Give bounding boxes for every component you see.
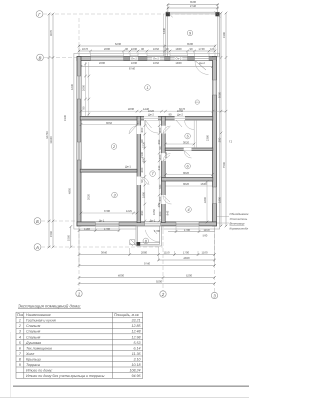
svg-text:Ок-2: Ок-2: [176, 57, 182, 61]
svg-text:1700: 1700: [184, 228, 191, 232]
svg-text:300: 300: [158, 211, 162, 216]
svg-text:7: 7: [152, 172, 155, 176]
svg-text:1890: 1890: [142, 191, 146, 198]
svg-text:1050: 1050: [152, 208, 156, 215]
svg-text:Наименование: Наименование: [26, 313, 51, 317]
svg-text:1560: 1560: [66, 234, 70, 241]
svg-text:2: 2: [18, 324, 21, 328]
svg-text:1700: 1700: [154, 229, 161, 233]
svg-text:Спальня: Спальня: [26, 335, 40, 339]
svg-text:3500: 3500: [187, 42, 194, 46]
svg-text:3070: 3070: [49, 29, 53, 36]
svg-text:2740: 2740: [190, 4, 197, 8]
svg-text:2080: 2080: [141, 251, 148, 255]
svg-text:310: 310: [157, 165, 161, 170]
svg-text:3: 3: [213, 293, 216, 298]
svg-text:5.53: 5.53: [134, 341, 141, 345]
svg-text:3640: 3640: [101, 251, 108, 255]
svg-text:4000: 4000: [118, 274, 125, 278]
svg-text:4: 4: [187, 208, 189, 212]
svg-text:300: 300: [157, 202, 161, 207]
svg-text:Обкладываем: Обкладываем: [230, 212, 249, 216]
svg-text:А: А: [35, 245, 39, 250]
svg-text:560: 560: [203, 233, 208, 237]
svg-text:5: 5: [19, 341, 21, 345]
svg-text:3020: 3020: [183, 171, 190, 175]
svg-text:Экспликация помещений дома:: Экспликация помещений дома:: [18, 304, 82, 309]
svg-text:90: 90: [140, 179, 144, 183]
svg-text:1: 1: [19, 319, 21, 323]
svg-text:Т1: Т1: [229, 140, 233, 144]
svg-text:90: 90: [125, 47, 129, 51]
svg-text:Холл: Холл: [25, 352, 34, 356]
svg-text:800: 800: [140, 167, 144, 172]
svg-text:Утеплитель: Утеплитель: [230, 217, 248, 221]
svg-text:90: 90: [165, 47, 169, 51]
svg-text:Керамзитобл: Керамзитобл: [230, 227, 249, 231]
svg-text:3.10: 3.10: [134, 357, 141, 361]
svg-text:90: 90: [81, 106, 85, 110]
svg-text:7500: 7500: [222, 161, 226, 168]
svg-text:845: 845: [166, 210, 170, 215]
svg-text:1630: 1630: [70, 83, 74, 90]
svg-text:3020: 3020: [183, 140, 190, 144]
svg-text:12.98: 12.98: [132, 335, 141, 339]
svg-text:6: 6: [19, 346, 21, 350]
svg-text:4020: 4020: [183, 256, 190, 260]
svg-text:Вентзазор: Вентзазор: [230, 222, 245, 226]
svg-text:2600: 2600: [104, 47, 111, 51]
svg-text:1070: 1070: [82, 47, 89, 51]
svg-text:108.24: 108.24: [130, 368, 141, 372]
svg-text:1060: 1060: [177, 109, 184, 113]
svg-text:1630: 1630: [200, 182, 207, 186]
svg-text:4: 4: [19, 335, 21, 339]
svg-text:Итого по дому без учета крыльц: Итого по дому без учета крыльца и террас…: [26, 374, 105, 378]
svg-text:90: 90: [189, 47, 193, 51]
svg-text:3: 3: [19, 330, 21, 334]
svg-text:1650: 1650: [153, 61, 160, 65]
svg-text:90: 90: [140, 139, 144, 143]
svg-text:2130: 2130: [140, 151, 144, 158]
svg-text:1160: 1160: [201, 251, 207, 255]
svg-text:10.18: 10.18: [132, 363, 141, 367]
svg-text:3130: 3130: [63, 114, 67, 121]
svg-text:12.85: 12.85: [132, 324, 141, 328]
svg-text:Б: Б: [36, 219, 39, 224]
svg-text:В: В: [39, 55, 42, 60]
svg-text:800: 800: [140, 127, 144, 132]
svg-text:9: 9: [189, 32, 192, 36]
svg-text:90: 90: [168, 113, 172, 117]
svg-text:3: 3: [113, 194, 116, 198]
svg-text:Ок-2: Ок-2: [131, 57, 137, 61]
svg-text:725: 725: [210, 47, 215, 51]
svg-text:5080: 5080: [217, 91, 221, 98]
svg-text:Дн-2: Дн-2: [199, 61, 205, 65]
svg-text:2: 2: [112, 145, 116, 149]
svg-text:4030: 4030: [128, 107, 135, 111]
svg-text:11.36: 11.36: [132, 352, 141, 356]
svg-text:2600: 2600: [81, 84, 85, 91]
svg-text:5: 5: [187, 135, 190, 139]
svg-text:Дн-1: Дн-1: [150, 219, 156, 223]
svg-text:3780: 3780: [104, 209, 111, 213]
svg-text:1630: 1630: [131, 47, 138, 51]
svg-text:Тех.помещение: Тех.помещение: [26, 346, 52, 350]
svg-text:780: 780: [158, 184, 162, 189]
svg-text:1830: 1830: [175, 61, 182, 65]
svg-text:Площадь, м.кв: Площадь, м.кв: [114, 313, 139, 317]
svg-text:1730: 1730: [198, 47, 205, 51]
svg-text:Спальня: Спальня: [26, 330, 40, 334]
svg-text:1150: 1150: [163, 251, 169, 255]
svg-text:1650: 1650: [153, 47, 160, 51]
svg-text:5200: 5200: [186, 274, 193, 278]
svg-text:12.48: 12.48: [132, 330, 141, 334]
svg-text:90: 90: [158, 146, 162, 150]
svg-text:9740: 9740: [144, 262, 151, 266]
svg-text:6.14: 6.14: [134, 346, 141, 350]
svg-text:Итого по дому:: Итого по дому:: [26, 368, 52, 372]
svg-text:Спальня: Спальня: [26, 324, 40, 328]
svg-text:4850: 4850: [68, 187, 72, 194]
svg-text:390: 390: [217, 137, 221, 142]
svg-text:Г: Г: [38, 12, 41, 17]
svg-text:1890: 1890: [217, 196, 221, 203]
svg-text:3020: 3020: [183, 182, 190, 186]
svg-text:Крыльцо: Крыльцо: [26, 357, 41, 361]
svg-text:1830: 1830: [175, 47, 182, 51]
svg-text:1225: 1225: [126, 209, 133, 213]
svg-text:90: 90: [141, 47, 145, 51]
svg-text:1630: 1630: [131, 61, 138, 65]
svg-text:800: 800: [158, 127, 162, 132]
svg-text:3650: 3650: [106, 121, 113, 125]
svg-text:1440: 1440: [162, 27, 166, 34]
svg-text:Дк-1: Дк-1: [99, 219, 105, 223]
svg-text:Гостиная и кухня: Гостиная и кухня: [26, 319, 56, 323]
svg-text:1030: 1030: [164, 151, 168, 158]
svg-text:11630: 11630: [49, 136, 53, 144]
svg-text:94.96: 94.96: [132, 374, 141, 378]
svg-text:Ок-2: Ок-2: [153, 57, 159, 61]
svg-text:1560: 1560: [49, 230, 53, 237]
svg-text:2380: 2380: [206, 134, 210, 141]
svg-text:7: 7: [19, 352, 22, 356]
svg-text:800: 800: [158, 154, 162, 159]
svg-text:6230: 6230: [115, 42, 122, 46]
svg-text:33.21: 33.21: [132, 319, 141, 323]
svg-text:8740: 8740: [129, 66, 136, 70]
svg-text:9: 9: [19, 363, 21, 367]
svg-text:Поз.: Поз.: [17, 313, 24, 317]
svg-text:2: 2: [161, 292, 165, 297]
svg-text:Терраса: Терраса: [26, 363, 40, 367]
svg-text:Дв-1: Дв-1: [125, 165, 131, 169]
svg-text:9200: 9200: [156, 280, 163, 284]
svg-text:1020: 1020: [148, 109, 155, 113]
svg-text:1: 1: [78, 291, 81, 296]
svg-text:2600: 2600: [99, 61, 106, 65]
svg-text:3520: 3520: [87, 193, 91, 200]
svg-text:8: 8: [145, 239, 148, 243]
svg-text:1180: 1180: [84, 227, 90, 231]
svg-text:6: 6: [187, 165, 190, 169]
svg-text:1700: 1700: [104, 227, 111, 231]
svg-text:3190: 3190: [222, 31, 226, 38]
svg-text:4200: 4200: [203, 196, 207, 203]
svg-text:890: 890: [140, 210, 144, 215]
svg-text:1150: 1150: [203, 228, 209, 232]
svg-text:8: 8: [19, 357, 21, 361]
svg-text:800: 800: [158, 196, 162, 201]
svg-text:1700: 1700: [183, 251, 190, 255]
svg-text:890: 890: [157, 139, 161, 144]
svg-text:1: 1: [146, 86, 148, 90]
svg-text:Душевая: Душевая: [25, 341, 41, 345]
